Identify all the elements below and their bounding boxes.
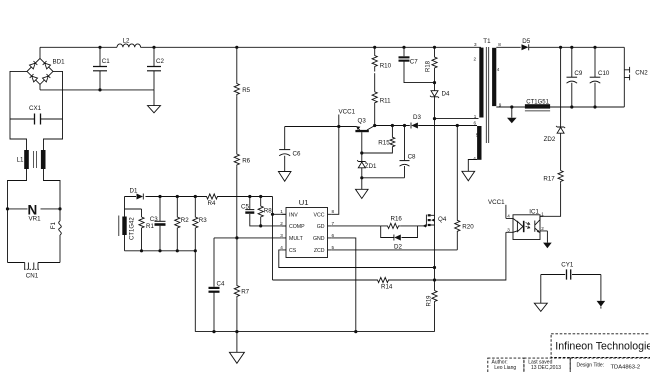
wire T1 pin1 to drain column xyxy=(435,118,479,120)
resistor R7 xyxy=(234,284,249,298)
fuse F1 xyxy=(50,221,61,263)
svg-text:Design Title:: Design Title: xyxy=(577,363,605,369)
junction dot source CS xyxy=(433,266,436,269)
wire gate xyxy=(418,225,426,227)
resistor R11 xyxy=(372,92,391,126)
bridge rectifier BD1 xyxy=(27,58,65,84)
capacitor C6 xyxy=(279,127,301,172)
svg-text:C2: C2 xyxy=(156,58,164,65)
svg-text:C6: C6 xyxy=(293,151,301,158)
capacitor CY1 xyxy=(541,262,601,280)
capacitor C8 xyxy=(400,124,417,178)
svg-text:4: 4 xyxy=(473,156,476,161)
transistor Q3 xyxy=(355,118,374,133)
svg-text:R4: R4 xyxy=(208,200,216,207)
wire INV column xyxy=(272,197,274,281)
svg-text:CY1: CY1 xyxy=(561,262,574,269)
svg-text:D2: D2 xyxy=(394,243,402,250)
resistor R1 xyxy=(139,217,155,252)
common mode choke L1 xyxy=(17,150,46,169)
junction dot collector node xyxy=(373,124,376,127)
wire IC1 pin3 to R14 node xyxy=(435,232,506,280)
svg-text:C1: C1 xyxy=(102,58,110,65)
wire CY1 right to earth xyxy=(600,275,602,301)
capacitor C9 xyxy=(567,47,583,107)
svg-text:7: 7 xyxy=(332,221,335,226)
svg-text:L1: L1 xyxy=(17,157,24,164)
svg-text:IC1: IC1 xyxy=(529,208,539,215)
wire VCC1 rail xyxy=(285,126,357,128)
capacitor C1 xyxy=(93,46,110,92)
junction dot top rail at R5 xyxy=(235,46,238,49)
svg-text:C10: C10 xyxy=(598,70,610,77)
svg-text:INV: INV xyxy=(289,212,298,218)
zener ZD1 xyxy=(357,160,377,179)
svg-text:Q3: Q3 xyxy=(358,118,367,125)
svg-text:VCC1: VCC1 xyxy=(488,199,505,206)
junction dot drain pin1 xyxy=(433,117,436,120)
svg-text:3: 3 xyxy=(280,233,283,238)
transistor Q4 MOSFET xyxy=(423,214,447,227)
svg-text:5: 5 xyxy=(476,133,479,138)
wire R5 R6 divider column xyxy=(236,47,238,331)
svg-text:Q4: Q4 xyxy=(438,216,447,223)
varistor VR1 xyxy=(6,203,62,223)
wire sense top rail xyxy=(125,196,273,198)
svg-text:Leo Liang: Leo Liang xyxy=(494,365,516,371)
wire stub CT1G42 to R1 xyxy=(125,209,142,217)
svg-text:COMP: COMP xyxy=(289,224,305,230)
svg-text:ZD2: ZD2 xyxy=(544,136,556,143)
junction dot base R15 xyxy=(360,151,363,154)
svg-text:CT1G51: CT1G51 xyxy=(526,100,549,106)
svg-text:ZD1: ZD1 xyxy=(365,163,377,170)
svg-text:R17: R17 xyxy=(543,175,555,182)
wire bridge bottom to return rail xyxy=(39,84,41,90)
junction dot source R14 xyxy=(433,278,436,281)
svg-text:13 DEC,2013: 13 DEC,2013 xyxy=(531,365,561,371)
capacitor C3 xyxy=(150,195,166,253)
svg-text:5: 5 xyxy=(332,245,335,250)
ground below C6 xyxy=(278,172,291,182)
ground below IC1 xyxy=(543,243,552,249)
resistor R18 xyxy=(426,46,438,91)
svg-text:CX1: CX1 xyxy=(29,105,42,112)
svg-text:R6: R6 xyxy=(242,158,250,165)
resistor R16 xyxy=(386,215,402,228)
wire Q3 base to ZD1 xyxy=(361,132,363,161)
resistor R6 xyxy=(234,153,250,167)
optocoupler IC1 xyxy=(506,208,548,239)
wire aux rail collector to T1 pin6 xyxy=(375,125,477,127)
capacitor CX1 xyxy=(10,105,63,125)
svg-text:8: 8 xyxy=(498,42,501,47)
svg-text:6: 6 xyxy=(332,233,335,238)
junction dot pin9 ground xyxy=(510,105,513,108)
resistor R10 xyxy=(372,46,392,72)
diode D3 xyxy=(411,114,421,129)
svg-text:4: 4 xyxy=(280,245,283,250)
svg-text:R7: R7 xyxy=(241,289,249,296)
svg-text:ZCD: ZCD xyxy=(314,248,325,254)
wire COMP network to U1 pin2 xyxy=(261,225,286,227)
net label VCC1 xyxy=(337,109,355,129)
ground CY1 left xyxy=(534,303,547,311)
svg-text:R8: R8 xyxy=(264,208,272,215)
connector CN2 xyxy=(624,47,648,107)
wire between R10 R11 xyxy=(374,73,376,92)
wire GND pin to bus xyxy=(332,238,356,332)
resistor R19 xyxy=(427,291,438,307)
svg-text:4: 4 xyxy=(507,214,510,219)
svg-text:R14: R14 xyxy=(381,284,393,291)
resistor R2 xyxy=(175,195,190,253)
svg-text:2: 2 xyxy=(473,57,476,62)
resistor R20 xyxy=(455,124,475,250)
wire output plus rail xyxy=(529,46,624,48)
svg-text:R16: R16 xyxy=(391,215,403,222)
ground below ZD1 xyxy=(356,178,369,199)
ground at T1 pin9 xyxy=(507,107,517,123)
resistor R3 xyxy=(193,195,208,332)
wire MULT to C4 column xyxy=(214,237,282,239)
svg-text:F1: F1 xyxy=(50,221,57,229)
svg-text:C3: C3 xyxy=(150,216,158,223)
svg-text:R11: R11 xyxy=(380,98,391,105)
wire ZCD pin to R20 xyxy=(332,249,458,251)
ground below T1 pin4 xyxy=(462,171,475,181)
svg-text:D3: D3 xyxy=(413,114,421,121)
title text xyxy=(492,341,650,371)
zener ZD2 xyxy=(544,126,566,143)
svg-text:VR1: VR1 xyxy=(29,216,42,223)
wire T1 pin8 to D5 xyxy=(496,46,520,48)
svg-text:R3: R3 xyxy=(199,217,207,224)
capacitor C2 xyxy=(147,46,164,90)
ground CY1 right xyxy=(597,301,606,309)
wire IC1 pin2 to ground xyxy=(546,231,548,243)
wire bridge top to top rail xyxy=(39,47,41,58)
svg-text:CN2: CN2 xyxy=(635,70,648,77)
wire ZD1 bottom to C8 bottom xyxy=(362,177,405,179)
svg-text:8: 8 xyxy=(332,209,335,214)
junction dots output rails xyxy=(559,46,562,49)
svg-text:BD1: BD1 xyxy=(53,59,66,66)
wire return rail xyxy=(40,89,154,91)
svg-text:R18: R18 xyxy=(426,60,432,72)
svg-text:R20: R20 xyxy=(462,224,474,231)
winding CT1G42 xyxy=(119,197,136,251)
resistor R4 xyxy=(205,194,221,207)
junction dots on ground bus xyxy=(212,330,215,333)
capacitor C10 xyxy=(590,47,610,107)
net label VCC1 at IC1 xyxy=(488,199,506,219)
resistor R5 xyxy=(234,82,250,96)
wire source column xyxy=(434,225,436,332)
capacitor C7 xyxy=(399,46,435,83)
svg-text:1: 1 xyxy=(280,209,283,214)
wire bridge left AC branch xyxy=(10,71,27,150)
svg-text:L2: L2 xyxy=(123,38,130,45)
wire ground bus (primary) xyxy=(195,331,434,333)
winding CT1G51 xyxy=(525,100,550,111)
svg-text:C7: C7 xyxy=(410,59,418,66)
svg-text:R10: R10 xyxy=(380,63,392,70)
svg-text:CS: CS xyxy=(289,248,297,254)
wire CY1 left to ground xyxy=(540,275,542,304)
svg-text:VCC1: VCC1 xyxy=(339,109,356,116)
svg-text:2: 2 xyxy=(541,226,544,231)
capacitor C5 xyxy=(241,195,261,226)
wire ZD2 R17 feedback column xyxy=(540,47,560,216)
svg-text:T1: T1 xyxy=(483,38,491,45)
connector CN1 xyxy=(8,263,61,280)
svg-text:Infineon Technologies: Infineon Technologies xyxy=(555,341,650,353)
svg-text:R19: R19 xyxy=(427,295,433,307)
zener D4 xyxy=(430,91,450,119)
wire GD to gate network xyxy=(332,225,381,227)
svg-text:6: 6 xyxy=(473,120,476,125)
svg-text:VCC: VCC xyxy=(314,212,325,218)
svg-text:MULT: MULT xyxy=(289,236,304,242)
svg-text:4: 4 xyxy=(497,67,500,72)
wire CS loop xyxy=(279,250,435,268)
svg-text:1: 1 xyxy=(541,212,544,217)
capacitor C4 xyxy=(209,238,225,332)
svg-text:2: 2 xyxy=(280,221,283,226)
resistor R15 xyxy=(362,124,395,153)
wire INV stub xyxy=(273,213,287,215)
wire T1 pin4 to ground xyxy=(468,160,477,172)
svg-text:C8: C8 xyxy=(408,153,416,160)
wire L1 left to VR1 rail xyxy=(8,169,27,263)
svg-text:D1: D1 xyxy=(130,188,138,195)
wire top rail (rectified bus) xyxy=(40,46,481,48)
svg-text:1: 1 xyxy=(474,114,477,119)
svg-text:GND: GND xyxy=(313,236,325,242)
svg-text:CT1G42: CT1G42 xyxy=(130,217,136,240)
svg-text:C5: C5 xyxy=(241,203,249,210)
wire bridge right AC branch xyxy=(44,71,63,150)
svg-text:R2: R2 xyxy=(181,217,189,224)
svg-text:R5: R5 xyxy=(242,87,250,94)
svg-text:CN1: CN1 xyxy=(26,273,39,280)
svg-text:U1: U1 xyxy=(299,198,309,207)
svg-text:R15: R15 xyxy=(378,140,390,147)
svg-text:D4: D4 xyxy=(442,91,450,98)
op-amp U1 TDA4863 xyxy=(280,198,334,257)
wire drain column xyxy=(434,119,436,216)
svg-text:3: 3 xyxy=(474,42,477,47)
resistor R17 xyxy=(543,171,563,184)
resistor R8 xyxy=(258,195,272,228)
svg-text:D5: D5 xyxy=(522,38,530,45)
svg-text:R1: R1 xyxy=(146,223,154,230)
inductor L2 xyxy=(117,38,141,48)
svg-text:C4: C4 xyxy=(217,281,225,288)
svg-text:C9: C9 xyxy=(574,70,582,77)
wire output return rail xyxy=(496,106,624,108)
wire VCC pin to VCC1 rail xyxy=(332,127,339,215)
svg-text:GD: GD xyxy=(317,224,325,230)
junction dot MULT divider xyxy=(235,236,238,239)
ground below C2 xyxy=(148,90,161,113)
diode D5 xyxy=(522,38,531,50)
wire sense bottom rail xyxy=(125,250,196,252)
diode D1 xyxy=(130,188,144,200)
wire L1 right to F1 xyxy=(44,169,61,221)
ground below bus xyxy=(229,332,244,364)
diode D2 parallel to R16 xyxy=(381,226,418,250)
transformer T1 xyxy=(473,38,502,161)
svg-text:TDA4863-2: TDA4863-2 xyxy=(611,365,641,371)
svg-text:3: 3 xyxy=(507,227,510,232)
junction dot INV stub xyxy=(271,213,274,216)
resistor R14 xyxy=(273,277,435,290)
title block frame xyxy=(488,334,650,372)
